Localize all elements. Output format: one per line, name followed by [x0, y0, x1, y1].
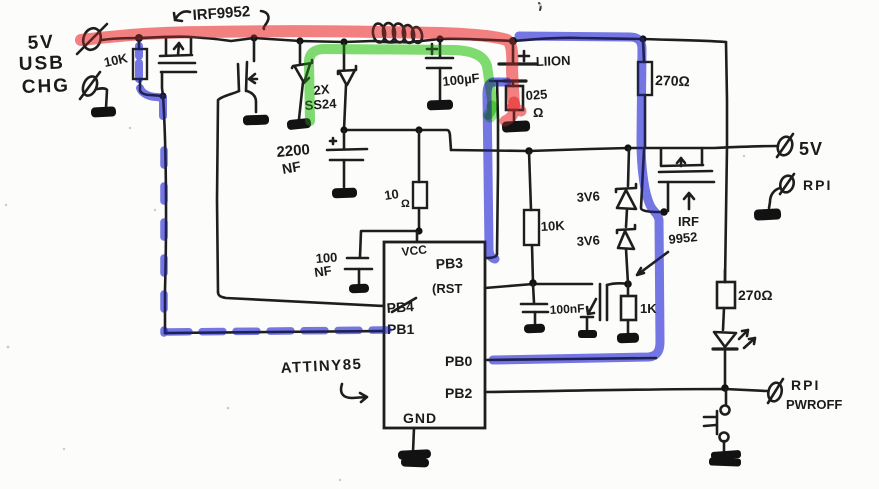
diode D2 SS24 [338, 42, 356, 130]
wire 270R to Q3 gate [641, 150, 665, 212]
svg-text:Ω: Ω [401, 198, 410, 210]
resistor R6 270R [638, 39, 690, 148]
svg-text:10: 10 [383, 186, 399, 203]
junction PWROFF node [721, 384, 729, 392]
junction on rail (270R top) [639, 35, 646, 42]
wire PB2 / RPI PWROFF [485, 389, 767, 392]
highlight green end dab [490, 106, 493, 117]
connector J1 5V-USB input [77, 24, 107, 54]
highlight blue dashed vertical PB1 [160, 150, 168, 333]
ground below C1 [332, 188, 357, 199]
svg-text:3V6: 3V6 [576, 188, 600, 205]
svg-text:025: 025 [525, 87, 548, 103]
zener D3 3V6 [576, 148, 636, 227]
wire top rail [102, 37, 726, 42]
transistor Q2 (N-FET) [217, 38, 257, 292]
junction RST node [529, 279, 537, 287]
wire right vertical from rail [725, 42, 727, 282]
svg-text:270Ω: 270Ω [655, 72, 690, 89]
svg-text:10K: 10K [540, 218, 565, 234]
wire PB1 vertical [163, 96, 166, 333]
junction [340, 126, 347, 133]
ground below D1 [287, 118, 312, 130]
junction on rail (battery +) [509, 37, 517, 45]
svg-text:9952: 9952 [668, 229, 698, 247]
squiggle after label [261, 11, 268, 29]
svg-text:270Ω: 270Ω [738, 287, 773, 303]
wire PB1 [165, 331, 384, 333]
svg-text:PWROFF: PWROFF [786, 397, 842, 412]
label IRF 9952 with arrows [637, 193, 699, 275]
svg-text:GND: GND [403, 410, 437, 426]
svg-text:100nF: 100nF [549, 301, 584, 317]
battery BT1 LiIon [499, 41, 571, 81]
wire RST [485, 284, 592, 288]
highlight red end flare [505, 102, 521, 121]
svg-text:3V6: 3V6 [576, 232, 600, 249]
capacitor C1 2200nF [276, 130, 367, 187]
ground below U1 [398, 449, 431, 467]
IC U1 ATTINY85 [384, 232, 485, 452]
highlight green path [309, 49, 492, 121]
svg-text:CHG: CHG [21, 75, 70, 98]
svg-text:1K: 1K [640, 301, 657, 316]
svg-text:RPI: RPI [791, 377, 820, 393]
ground below RPI connector [754, 208, 782, 220]
diode D1 SS24 [292, 41, 312, 119]
connector RPI ground [769, 174, 832, 208]
transistor Q3 IRF9952 (output P-FET) [659, 148, 714, 211]
junction on rail [250, 34, 257, 41]
junction on rail [436, 35, 443, 42]
junction Q3 gate node [660, 208, 668, 216]
svg-text:PB3: PB3 [435, 255, 463, 272]
highlight blue top loop to PB0 [493, 36, 660, 360]
resistor R1 10K [103, 38, 163, 96]
wire PB4 [218, 292, 384, 306]
junction on rail [340, 38, 347, 45]
svg-text:PB0: PB0 [445, 353, 472, 369]
resistor R3 0.25R shunt [506, 81, 548, 122]
wire inner 5V rail [451, 146, 778, 151]
highlight blue over 10K [139, 46, 163, 116]
label 5V USB CHG [18, 32, 70, 98]
ground below C2 [349, 284, 369, 294]
junction on rail [296, 37, 303, 44]
resistor R5 1K [621, 284, 657, 333]
ground stub near C5 [578, 317, 597, 338]
svg-text:IRF: IRF [678, 214, 699, 229]
small arrow by label [587, 299, 596, 314]
ground below C3 [427, 100, 453, 111]
LED D5 [713, 330, 755, 387]
svg-text:Ω: Ω [533, 105, 543, 120]
svg-text:PB2: PB2 [445, 385, 472, 401]
ground below shunt [502, 120, 531, 132]
highlight blue dashed horizontal PB1 [168, 330, 388, 332]
svg-text:NF: NF [313, 263, 332, 280]
svg-text:5V: 5V [27, 32, 55, 54]
transistor Q1 IRF9952 (P-FET top left) [159, 38, 196, 96]
arrow to Q1 [174, 11, 190, 21]
plus sign C3 [427, 44, 437, 54]
junction [624, 144, 631, 151]
capacitor C3 100uF [426, 39, 480, 100]
resistor R2 10R [383, 130, 427, 231]
wire PB3 hook [486, 254, 497, 258]
svg-text:USB: USB [18, 52, 65, 75]
inductor L1 [372, 22, 424, 43]
svg-text:VCC: VCC [401, 242, 428, 259]
junction VCC node [415, 227, 422, 234]
stray pen tick top [539, 3, 541, 10]
svg-text:RPI: RPI [803, 177, 832, 193]
svg-text:(RST: (RST [432, 281, 462, 296]
arrow below ATTINY85 label [341, 384, 367, 402]
wire battery sense to PB3 [490, 81, 505, 254]
junction [415, 126, 422, 133]
highlight red charge path [81, 31, 514, 106]
connector RPI PWROFF [766, 377, 842, 412]
wire PB0 [485, 358, 656, 360]
capacitor C5 series [600, 283, 628, 320]
junction node gate/PB1 [160, 93, 167, 100]
capacitor C4 100nF on RST [521, 284, 585, 324]
switch SW1 pushbutton [704, 389, 730, 453]
junction on rail [135, 34, 143, 42]
junction [525, 147, 533, 155]
ground below Q2 [243, 115, 269, 126]
junction 1K node [624, 280, 632, 288]
svg-text:LIION: LIION [536, 53, 571, 69]
resistor R7 270R [717, 270, 773, 330]
ground below R5 [617, 333, 639, 344]
highlight blue battery sense [487, 82, 507, 259]
ground below SW1 [709, 450, 741, 467]
svg-text:5V: 5V [799, 139, 823, 159]
connector J2 CHG [80, 72, 107, 108]
svg-text:NF: NF [281, 158, 303, 177]
ground below J2 [91, 106, 116, 117]
zener D4 3V6 [576, 225, 635, 284]
connector 5V out [775, 134, 823, 159]
wire node 2200nF junction [344, 130, 451, 150]
capacitor C2 100nF (VCC decoupling) [313, 231, 419, 284]
ground below C4 [524, 324, 545, 334]
resistor R4 10K [524, 151, 566, 283]
